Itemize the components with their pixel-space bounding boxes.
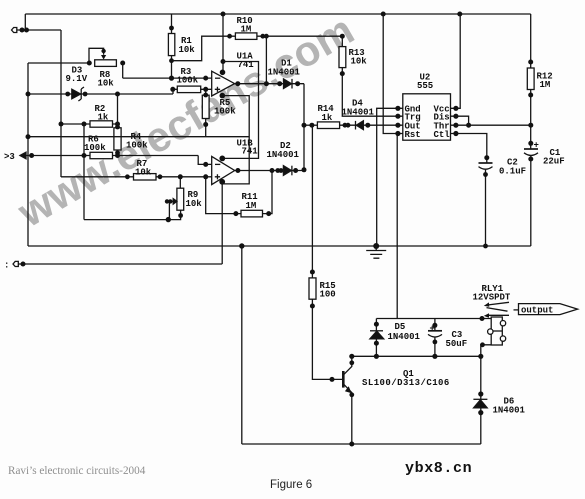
wire U1A bottom branch xyxy=(222,96,249,184)
diode D6 xyxy=(473,391,525,415)
resistor R7 xyxy=(61,159,212,180)
op-amp U1A 741 xyxy=(212,52,255,97)
diode D5 xyxy=(370,319,421,357)
svg-text:ybx8.cn: ybx8.cn xyxy=(405,460,472,477)
wire left vertical rail xyxy=(27,63,29,246)
horizontal wire below R5 xyxy=(28,136,249,138)
wire left drop to bottom rail xyxy=(241,246,243,444)
output tag xyxy=(514,304,578,316)
svg-text:+: + xyxy=(430,324,435,334)
capacitor C3 50uF xyxy=(428,319,467,357)
wire R10 right riser to U1A output xyxy=(265,36,267,83)
svg-text:1k: 1k xyxy=(98,113,109,123)
svg-text:SL100/D313/C106: SL100/D313/C106 xyxy=(362,378,450,388)
diode D2 xyxy=(267,141,300,175)
zener diode D3 9.1V xyxy=(26,66,174,102)
svg-text:9.1V: 9.1V xyxy=(66,74,88,84)
svg-text:10k: 10k xyxy=(135,168,152,178)
resistor R1 xyxy=(168,14,195,81)
svg-text:10k: 10k xyxy=(186,199,203,209)
wire J2 to U1B xyxy=(18,263,222,265)
svg-text:555: 555 xyxy=(417,81,433,91)
wire Vcc to rail xyxy=(456,14,460,108)
svg-text:22uF: 22uF xyxy=(543,157,565,167)
svg-text:1N4001: 1N4001 xyxy=(388,332,421,342)
svg-text:10k: 10k xyxy=(98,79,115,89)
resistor R10 xyxy=(227,16,342,39)
diode D1 xyxy=(268,59,301,89)
transistor Q1 xyxy=(343,356,449,446)
wire bottom rail xyxy=(242,443,481,445)
wire riser to top rail xyxy=(24,14,26,30)
svg-text:100k: 100k xyxy=(214,107,236,117)
svg-text:0.1uF: 0.1uF xyxy=(499,167,526,177)
wire main riser to U1A xyxy=(222,14,224,73)
diode D4 xyxy=(342,99,375,130)
svg-text:1M: 1M xyxy=(540,80,551,90)
relay RLY1 coil xyxy=(473,284,511,345)
resistor R15 xyxy=(309,270,343,382)
wire U1B output row xyxy=(235,170,305,172)
wire connector J1 to node xyxy=(17,29,61,31)
svg-text:Rst: Rst xyxy=(405,130,421,140)
svg-text:10k: 10k xyxy=(179,45,196,55)
svg-text:1M: 1M xyxy=(241,25,252,35)
svg-text:1M: 1M xyxy=(246,201,257,211)
resistor R5 xyxy=(202,89,236,136)
wire R1 branch to R10 left xyxy=(172,36,236,61)
wire detour U1A top to U1B top xyxy=(222,62,258,159)
svg-text:741: 741 xyxy=(242,147,259,157)
wire relay coil bottom to D6 xyxy=(481,345,491,444)
wire R2/R6 vertical link xyxy=(83,124,85,220)
svg-text:D5: D5 xyxy=(395,322,406,332)
svg-text:Ravi’s electronic circuits-200: Ravi’s electronic circuits-2004 xyxy=(8,465,146,477)
wire Gnd pin to ground rail xyxy=(377,108,398,246)
input probe 3 xyxy=(4,152,26,162)
svg-text:Figure 6: Figure 6 xyxy=(270,479,312,491)
ground rail xyxy=(28,245,531,247)
svg-text:10k: 10k xyxy=(351,57,368,67)
svg-text:1k: 1k xyxy=(322,113,333,123)
svg-text:1N4001: 1N4001 xyxy=(268,68,301,78)
op-amp U1B 741 xyxy=(212,139,259,185)
svg-text:100k: 100k xyxy=(84,143,106,153)
resistor R2 xyxy=(59,104,121,127)
relay contacts xyxy=(484,302,509,317)
wire Rst row down to relay rail xyxy=(396,134,398,319)
svg-text:100k: 100k xyxy=(177,76,199,86)
potentiometer R8 xyxy=(87,48,125,88)
resistor R12 xyxy=(527,14,552,149)
svg-text:50uF: 50uF xyxy=(446,339,468,349)
svg-text:100k: 100k xyxy=(126,141,148,151)
wire left branch to R8 xyxy=(28,62,89,64)
wire U1B bottom to probe2 line xyxy=(221,182,223,264)
wire into U1B minus xyxy=(198,156,212,165)
watermark www.elecfans.com xyxy=(9,6,362,237)
svg-text:Ctl: Ctl xyxy=(434,130,451,140)
resistor R13 xyxy=(339,34,398,117)
ground symbol xyxy=(366,243,386,258)
wire zener node up to R3 row xyxy=(172,89,174,94)
wire U1A output row xyxy=(235,83,304,85)
resistor R3 xyxy=(170,67,211,93)
wire Dis jog to Thr xyxy=(456,116,469,125)
svg-text:>3: >3 xyxy=(4,152,15,162)
wire collector rail xyxy=(352,355,481,357)
resistor R11 xyxy=(206,168,275,217)
wire Ctl to C2 xyxy=(456,134,487,164)
wire R8 right to U1A minus input xyxy=(123,63,212,78)
svg-text:output: output xyxy=(521,306,553,316)
svg-text::: : xyxy=(4,261,9,271)
capacitor C2 0.1uF xyxy=(479,158,527,247)
svg-text:741: 741 xyxy=(238,60,255,70)
wire node to R15 xyxy=(311,125,313,278)
capacitor C1 22uF xyxy=(524,141,565,247)
resistor R6 xyxy=(26,135,198,159)
potentiometer R9 xyxy=(84,177,202,223)
wire J1 vertical to R7 row xyxy=(60,30,62,177)
input connector J2 xyxy=(4,261,18,271)
resistor R4 xyxy=(114,94,148,156)
resistor R14 xyxy=(302,104,398,129)
wire relay feed row xyxy=(376,318,491,320)
svg-text:100: 100 xyxy=(320,290,336,300)
input connector J1 xyxy=(12,28,17,33)
wire Rst to top rail xyxy=(383,14,398,134)
svg-text:12VSPDT: 12VSPDT xyxy=(473,293,511,303)
node dots at J1 xyxy=(20,28,30,33)
svg-text:1N4001: 1N4001 xyxy=(493,406,526,416)
wire Thr row xyxy=(456,124,531,126)
wire diode-OR node vertical xyxy=(303,84,305,171)
IC U2 555 xyxy=(395,73,458,141)
svg-text:1N4001: 1N4001 xyxy=(267,150,300,160)
wire top supply rail xyxy=(25,13,530,15)
